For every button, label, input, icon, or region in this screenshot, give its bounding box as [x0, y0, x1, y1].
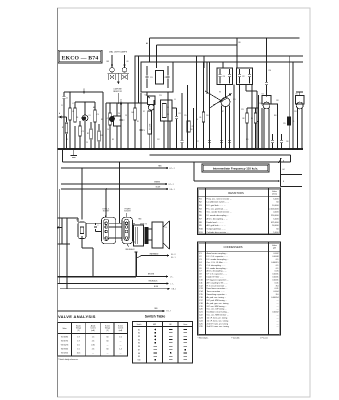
svg-text:5,000: 5,000 [273, 232, 279, 234]
svg-text:Switch: Switch [137, 323, 142, 326]
svg-text:0.00054: 0.00054 [271, 297, 279, 299]
lamp LP1 [109, 55, 116, 80]
svg-text:LW: LW [169, 324, 172, 326]
svg-text:C17: C17 [199, 300, 204, 302]
svg-text:Fixed tone correction ...: Fixed tone correction ... [207, 287, 228, 290]
svg-text:0.002: 0.002 [273, 253, 279, 255]
svg-text:C7: C7 [123, 120, 125, 122]
loudspeaker LS [152, 221, 170, 249]
svg-text:60: 60 [107, 349, 109, 351]
svg-text:C28: C28 [276, 100, 279, 102]
svg-text:I.F. C.G. capacitor ... ...: I.F. C.G. capacitor ... ... [207, 273, 228, 276]
svg-text:0.00015: 0.00015 [271, 262, 279, 264]
svg-text:C13: C13 [150, 77, 153, 79]
svg-text:2nd I.F. trans. sec. tuning: 2nd I.F. trans. sec. tuning [207, 325, 229, 328]
svg-text:L3: L3 [167, 107, 169, 109]
svg-text:R9: R9 [251, 118, 253, 120]
svg-text:R4: R4 [132, 112, 134, 114]
valve table footnote [58, 358, 79, 361]
svg-text:R6: R6 [196, 119, 198, 121]
svg-text:(V): (V) [106, 330, 109, 332]
svg-text:0.0008: 0.0008 [272, 256, 279, 258]
svg-text:1.9: 1.9 [77, 341, 80, 343]
osc coil box L3 L4 [161, 100, 173, 121]
svg-text:C31: C31 [294, 111, 297, 113]
capacitor C9 [139, 129, 145, 132]
aerial terminal arrow [58, 112, 64, 118]
svg-text:Cathode bias resistor ...: Cathode bias resistor ... [207, 231, 229, 234]
svg-text:Anode: Anode [91, 324, 96, 327]
svg-text:—: — [277, 303, 279, 305]
svg-text:C12: C12 [157, 139, 160, 141]
svg-text:Diode I.F. filter ... ...: Diode I.F. filter ... ... [207, 276, 225, 279]
svg-text:V1 6K8G: V1 6K8G [61, 337, 69, 339]
svg-text:S9: S9 [138, 356, 140, 358]
svg-text:S3: S3 [138, 336, 140, 338]
svg-text:C11: C11 [199, 282, 203, 284]
svg-text:Intermediate Frequency 110 kc/: Intermediate Frequency 110 kc/s. [213, 167, 259, 171]
capacitor C12 [180, 93, 183, 149]
svg-text:0.0002: 0.0002 [272, 312, 279, 314]
chassis bus [58, 148, 304, 150]
svg-text:C22: C22 [242, 76, 245, 78]
svg-text:VALVE ANALYSIS: VALVE ANALYSIS [58, 314, 96, 319]
svg-text:B9: B9 [239, 42, 241, 44]
svg-text:R1: R1 [62, 127, 64, 129]
svg-text:R3: R3 [101, 135, 103, 137]
svg-text:—: — [107, 345, 109, 347]
svg-text:B 7 + 2: B 7 + 2 [170, 168, 175, 170]
svg-text:Osc. C.G. I.F. filter ... ..: Osc. C.G. I.F. filter ... ... [207, 261, 228, 264]
wire blue rail [61, 187, 175, 191]
svg-text:0.1: 0.1 [276, 259, 280, 261]
svg-text:—: — [120, 341, 122, 343]
misc component labels [61, 95, 297, 144]
svg-text:R7: R7 [222, 111, 224, 113]
svg-text:I.F. anode decoupling ...: I.F. anode decoupling ... [207, 268, 229, 270]
svg-text:C15: C15 [199, 294, 204, 296]
svg-text:V5: V5 [296, 93, 298, 95]
svg-text:C2: C2 [83, 89, 85, 91]
trimmer C6 [113, 103, 121, 149]
svg-text:0.0001: 0.0001 [272, 279, 279, 281]
wire t3 a [239, 85, 241, 150]
svg-text:0.01: 0.01 [275, 282, 280, 284]
svg-text:MW: MW [153, 324, 156, 326]
IF transformer T1 [141, 62, 173, 92]
svg-text:R6: R6 [200, 117, 202, 119]
table footnote [198, 336, 269, 339]
svg-text:(µF): (µF) [273, 248, 276, 250]
svg-text:C7: C7 [199, 271, 202, 273]
svg-text:V5 6X5G: V5 6X5G [61, 353, 69, 355]
svg-text:Oscillator circuit tuning ...: Oscillator circuit tuning ... [207, 311, 230, 314]
wire left drop b [66, 218, 68, 289]
svg-text:L1: L1 [72, 103, 74, 105]
svg-text:C15: C15 [192, 126, 195, 128]
wire grid stopper [271, 100, 279, 149]
svg-text:Osc. anode feed resistor ...: Osc. anode feed resistor ... [207, 211, 232, 214]
wire lamp tap [108, 73, 130, 84]
svg-text:0.1: 0.1 [276, 265, 280, 267]
wire osc grid [182, 85, 188, 149]
svg-text:S7: S7 [138, 349, 140, 351]
svg-text:V4 6V6G: V4 6V6G [61, 349, 69, 351]
svg-text:—: — [120, 345, 122, 347]
wavechange switch S1 [74, 102, 79, 149]
svg-text:1.6: 1.6 [119, 337, 122, 339]
svg-text:A.F. grid leak ... ... ...: A.F. grid leak ... ... ... [207, 224, 226, 227]
svg-text:50,000: 50,000 [272, 225, 279, 227]
svg-text:C9: C9 [199, 277, 202, 279]
wire waveband [136, 252, 176, 258]
wire aerial top [64, 92, 103, 149]
wire HT line top [150, 37, 300, 39]
capacitor C29 [271, 134, 274, 149]
svg-text:A: A [59, 112, 61, 115]
capacitor C15box [187, 121, 194, 132]
wire T1 sec [167, 92, 169, 149]
capacitor C26 [265, 37, 271, 96]
svg-text:BLUE: BLUE [154, 286, 158, 288]
svg-text:C1: C1 [61, 105, 63, 107]
wire HT+ red [61, 166, 175, 170]
svg-text:C4: C4 [107, 129, 109, 131]
wire mesh b [200, 62, 205, 149]
svg-text:F.C. grid leak ... ... ...: F.C. grid leak ... ... ... [207, 204, 226, 207]
valve analysis table [58, 314, 128, 356]
svg-text:C15: C15 [184, 115, 187, 117]
wire brown lead [136, 274, 173, 279]
label power socket [124, 208, 131, 217]
svg-text:SOCKET: SOCKET [124, 211, 131, 213]
svg-text:—: — [277, 317, 279, 319]
svg-text:S10: S10 [137, 359, 140, 361]
svg-text:C30: C30 [286, 141, 289, 143]
svg-text:1.9: 1.9 [77, 337, 80, 339]
valve V2 pentode [109, 103, 128, 149]
svg-text:C19: C19 [233, 99, 236, 101]
svg-text:RED: RED [139, 219, 142, 221]
wire drop a [105, 103, 107, 149]
svg-text:S4: S4 [138, 339, 140, 341]
svg-text:0.004: 0.004 [273, 291, 279, 293]
svg-text:C4: C4 [97, 114, 99, 116]
svg-text:—: — [277, 306, 279, 308]
svg-text:RED: RED [154, 308, 158, 310]
svg-text:10,000: 10,000 [272, 205, 279, 207]
svg-text:Screen: Screen [105, 325, 110, 327]
valve V5 rectifier [296, 92, 305, 149]
wire v5 cathode [82, 236, 93, 277]
svg-text:L 7 +: L 7 + [170, 276, 173, 278]
wire ht drop [292, 62, 294, 149]
trimmer C3 [79, 121, 84, 149]
svg-text:MW: MW [107, 61, 110, 63]
svg-text:V3 6Q7G: V3 6Q7G [61, 345, 69, 347]
svg-text:BROWN: BROWN [148, 274, 154, 276]
IF transformer T3 [237, 68, 253, 85]
svg-text:C13: C13 [159, 95, 162, 97]
wire det rail [252, 91, 257, 149]
wire de drop [153, 100, 155, 149]
wire T1 pri [147, 92, 150, 98]
wire avc [261, 108, 263, 149]
svg-text:L4: L4 [167, 114, 169, 116]
svg-text:R5: R5 [199, 212, 203, 214]
wire red black lead [58, 280, 174, 286]
svg-text:S1: S1 [77, 117, 79, 119]
svg-text:250,000: 250,000 [271, 215, 279, 217]
wire sub bus [150, 154, 291, 156]
svg-text:50: 50 [276, 202, 279, 204]
capacitor C34 [86, 223, 102, 231]
svg-text:R8: R8 [199, 222, 203, 224]
svg-text:C9: C9 [143, 130, 145, 132]
svg-text:C: C [98, 225, 99, 227]
capacitor C7 [119, 103, 124, 149]
svg-text:1st I.F. trans. sec. tuning: 1st I.F. trans. sec. tuning [207, 319, 229, 322]
svg-text:T3: T3 [145, 224, 147, 226]
svg-text:R9: R9 [199, 225, 203, 227]
capacitor C1 [62, 92, 68, 149]
svg-text:RED/BLACK: RED/BLACK [125, 248, 135, 251]
svg-text:S 4 - 8: S 4 - 8 [171, 254, 176, 256]
svg-text:WAVEBAND: WAVEBAND [150, 252, 160, 255]
wire red lead [58, 308, 172, 313]
resistor R9 [247, 95, 259, 149]
svg-text:C16: C16 [199, 297, 204, 299]
svg-text:RED/BLACK: RED/BLACK [149, 280, 159, 283]
svg-text:50: 50 [276, 228, 279, 230]
svg-text:I.F. anode decoupling ...: I.F. anode decoupling ... [207, 215, 229, 217]
svg-text:R3: R3 [112, 139, 114, 141]
wire osc b [169, 121, 171, 149]
svg-text:Gram: Gram [183, 324, 188, 326]
svg-text:F.C. C.G. capacitor ... ...: F.C. C.G. capacitor ... ... [207, 255, 229, 258]
wire v5 feed [81, 167, 83, 219]
svg-text:B: B [283, 181, 284, 183]
svg-text:C5: C5 [120, 100, 122, 102]
svg-text:C23: C23 [241, 109, 244, 111]
capacitor C18 [228, 141, 231, 143]
svg-text:A.V.C. decoupling ... ...: A.V.C. decoupling ... ... [207, 270, 228, 273]
svg-text:C6: C6 [199, 268, 202, 270]
svg-text:I.F. by-pass capacitors ...: I.F. by-pass capacitors ... [207, 278, 230, 281]
trimmer C11 [172, 108, 181, 149]
svg-text:0.35: 0.35 [91, 345, 95, 347]
svg-text:—: — [107, 353, 109, 355]
intermediate frequency box [202, 164, 269, 172]
wire t3 c [251, 85, 253, 150]
svg-text:S6: S6 [138, 346, 140, 348]
valve V4 output [262, 93, 272, 149]
svg-text:C6: C6 [118, 113, 120, 115]
resistor R3 [98, 124, 103, 149]
resistor R4 [132, 56, 137, 149]
wire green rail [61, 182, 174, 186]
svg-text:C3: C3 [199, 259, 202, 261]
node B9 [239, 42, 241, 44]
svg-text:C29: C29 [283, 123, 286, 125]
svg-text:A.V.C. decoupling ... ...: A.V.C. decoupling ... ... [207, 217, 228, 220]
svg-text:L2: L2 [106, 118, 108, 120]
svg-text:A4: A4 [146, 42, 148, 45]
svg-text:—: — [277, 320, 279, 322]
svg-text:R6: R6 [199, 215, 203, 217]
svg-text:DIAL LIGHT LAMPS: DIAL LIGHT LAMPS [109, 50, 128, 53]
svg-text:C13: C13 [199, 288, 204, 290]
valve V3 freq changer [205, 85, 232, 109]
svg-text:R2: R2 [101, 119, 103, 121]
resistor R8 [243, 108, 249, 149]
svg-text:0.0001: 0.0001 [272, 277, 279, 279]
socket SK1 [102, 188, 123, 244]
svg-text:1.5: 1.5 [77, 349, 80, 351]
svg-text:C4: C4 [199, 262, 202, 264]
svg-text:F.C. anode decoupling ...: F.C. anode decoupling ... [207, 259, 230, 261]
label dial light lamps [109, 50, 128, 53]
svg-text:EKCO — B74: EKCO — B74 [62, 56, 99, 62]
wire het line [281, 175, 303, 187]
wire pad [190, 108, 194, 149]
volume control VR1 [148, 38, 152, 149]
svg-text:† Variable.: † Variable. [231, 336, 240, 339]
svg-text:C1: C1 [199, 253, 202, 255]
svg-text:Diode load ... ... ...: Diode load ... ... ... [207, 222, 224, 224]
resistor R2 [87, 122, 92, 149]
svg-text:Values: Values [272, 245, 277, 247]
svg-text:Switch Table: Switch Table [145, 315, 166, 319]
wire earth return [63, 149, 291, 162]
lamp LP2 [121, 55, 128, 80]
svg-text:S2: S2 [143, 111, 145, 113]
svg-text:† Switch faintly references.: † Switch faintly references. [58, 358, 79, 361]
label red black [125, 244, 135, 251]
svg-text:—: — [277, 326, 279, 328]
svg-text:C8: C8 [199, 274, 202, 276]
svg-text:—: — [277, 309, 279, 311]
svg-text:R10: R10 [274, 115, 277, 117]
svg-text:C19: C19 [199, 306, 204, 308]
svg-text:2,000,000: 2,000,000 [269, 208, 279, 210]
svg-text:C18: C18 [199, 303, 204, 305]
svg-text:2nd I.F. trans. pri. tuning: 2nd I.F. trans. pri. tuning [207, 322, 228, 325]
coil L2 [106, 102, 111, 149]
svg-text:C24: C24 [259, 103, 262, 105]
svg-text:S8: S8 [138, 353, 140, 355]
wire grid loop [75, 102, 95, 110]
svg-text:425,000: 425,000 [271, 222, 279, 224]
svg-text:V4: V4 [262, 93, 264, 95]
svg-text:2.6: 2.6 [92, 341, 95, 343]
svg-text:—: — [120, 353, 122, 355]
svg-text:8.0: 8.0 [276, 294, 280, 296]
svg-text:C22: C22 [199, 315, 204, 317]
svg-text:C24: C24 [199, 320, 204, 322]
svg-text:Freq. osc. series resistor ..: Freq. osc. series resistor ... [207, 197, 232, 200]
wire grid bus [106, 56, 148, 104]
svg-text:Av. pad. gen. osc. tuning: Av. pad. gen. osc. tuning [207, 302, 229, 305]
svg-text:0.0001: 0.0001 [272, 274, 279, 276]
svg-text:C8: C8 [125, 115, 127, 117]
svg-text:S 4 - 1: S 4 - 1 [171, 257, 176, 259]
svg-text:H.T. circuit reservoir ...: H.T. circuit reservoir ... [207, 284, 227, 287]
svg-text:(V): (V) [77, 330, 80, 332]
switch table [133, 315, 193, 363]
svg-text:LW: LW [127, 61, 130, 63]
condensers table [198, 242, 281, 335]
svg-text:R10: R10 [199, 228, 204, 230]
svg-text:C2: C2 [199, 256, 202, 258]
svg-text:Screen: Screen [118, 325, 123, 327]
svg-text:S 8 + 1: S 8 + 1 [170, 189, 175, 191]
svg-text:B 5 - 7: B 5 - 7 [167, 311, 172, 313]
svg-text:R1: R1 [199, 198, 203, 200]
svg-text:Values: Values [272, 191, 277, 193]
title box EKCO - B74 [58, 50, 102, 63]
svg-text:V2 6K7G: V2 6K7G [61, 341, 69, 343]
svg-text:C5: C5 [199, 265, 202, 267]
svg-text:B: B [283, 161, 284, 163]
socket SK2 [119, 161, 133, 244]
label fuse resistor [113, 88, 122, 93]
svg-text:C17: C17 [196, 141, 199, 143]
wire t3 b [246, 85, 252, 92]
svg-text:(ohms): (ohms) [272, 194, 277, 196]
svg-text:5,000: 5,000 [273, 198, 279, 200]
svg-text:CONDENSERS: CONDENSERS [224, 245, 243, 249]
svg-text:C26: C26 [268, 70, 271, 72]
resistors table [198, 188, 281, 235]
wire T1 top [156, 45, 158, 62]
choke L5 [287, 56, 294, 149]
svg-text:F.C. osc. grid leak ... ...: F.C. osc. grid leak ... ... [207, 207, 229, 210]
wire blue lead [60, 286, 176, 291]
svg-text:S2: S2 [138, 333, 140, 335]
svg-text:—: — [92, 353, 94, 355]
svg-text:Osc. circ. MW trimmer ...: Osc. circ. MW trimmer ... [207, 314, 229, 317]
wire mesh d [233, 85, 235, 150]
svg-text:C12: C12 [199, 285, 204, 287]
wire lamp feed MW [107, 55, 113, 63]
coil L1 aerial [69, 91, 74, 149]
svg-text:C10: C10 [199, 279, 204, 281]
svg-text:C3: C3 [86, 142, 88, 144]
wire speaker leads [148, 229, 152, 240]
wire osc feed [157, 38, 238, 68]
svg-text:V2: V2 [145, 94, 147, 96]
svg-text:GREEN: GREEN [154, 182, 161, 184]
svg-text:8.0: 8.0 [276, 285, 280, 287]
svg-text:C21: C21 [199, 312, 204, 314]
wire b6 line [194, 162, 280, 182]
capacitor C2 [83, 89, 85, 94]
svg-text:C11: C11 [178, 113, 181, 115]
svg-text:RED: RED [158, 166, 162, 168]
IF transformer T2 [217, 62, 233, 85]
svg-text:Av. pad. osc. tuning ...: Av. pad. osc. tuning ... [207, 296, 227, 299]
svg-text:C26: C26 [199, 326, 204, 328]
page edge (scan border) [58, 8, 311, 397]
svg-text:C3: C3 [82, 131, 84, 133]
svg-text:R7: R7 [199, 218, 203, 220]
svg-text:V3: V3 [219, 92, 221, 94]
svg-text:V5: V5 [76, 220, 78, 222]
wire osc a [163, 121, 165, 149]
svg-text:BLUE: BLUE [156, 187, 161, 189]
wire tap line [279, 158, 286, 187]
